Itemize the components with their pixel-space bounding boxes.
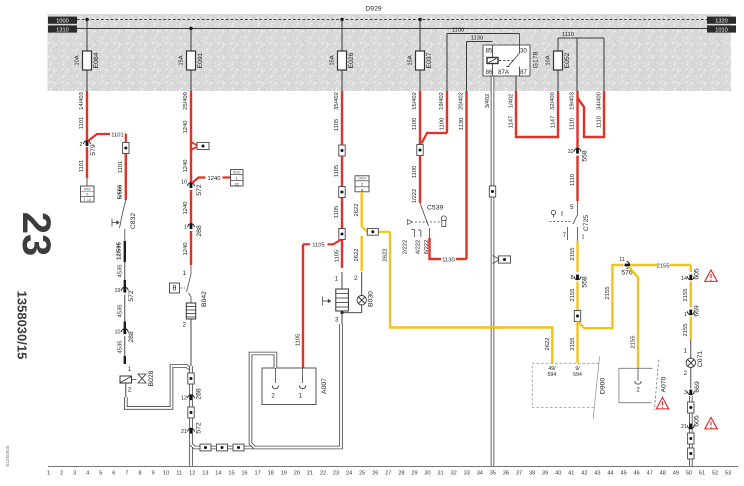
svg-text:22: 22 <box>234 181 239 186</box>
svg-text:3: 3 <box>684 390 687 396</box>
svg-text:6: 6 <box>112 471 115 477</box>
svg-text:32: 32 <box>451 471 457 477</box>
svg-text:43: 43 <box>594 471 600 477</box>
svg-text:579: 579 <box>90 144 97 156</box>
svg-text:1240: 1240 <box>183 121 189 134</box>
svg-text:10: 10 <box>163 471 169 477</box>
svg-text:594: 594 <box>548 372 557 378</box>
svg-text:C725: C725 <box>583 215 590 231</box>
svg-text:1101: 1101 <box>79 160 85 172</box>
svg-text:1: 1 <box>47 471 50 477</box>
svg-text:4535: 4535 <box>118 265 124 278</box>
svg-text:30: 30 <box>424 471 430 477</box>
svg-text:12: 12 <box>189 471 195 477</box>
svg-text:1147: 1147 <box>509 116 515 128</box>
svg-text:3/402: 3/402 <box>485 94 491 109</box>
svg-text:15/402: 15/402 <box>412 92 418 110</box>
svg-text:46: 46 <box>634 471 640 477</box>
svg-text:669: 669 <box>694 305 701 317</box>
svg-text:14: 14 <box>87 198 91 202</box>
svg-text:1130: 1130 <box>459 118 465 130</box>
svg-text:1105: 1105 <box>334 119 340 131</box>
svg-text:5: 5 <box>86 193 88 197</box>
svg-text:B042: B042 <box>201 291 208 307</box>
svg-text:1110: 1110 <box>562 32 574 38</box>
svg-text:24: 24 <box>346 471 352 477</box>
svg-text:2622: 2622 <box>354 204 360 217</box>
svg-text:1105: 1105 <box>296 334 302 346</box>
svg-text:49/: 49/ <box>548 366 556 372</box>
svg-text:1010: 1010 <box>715 27 727 33</box>
svg-text:B030: B030 <box>368 291 375 307</box>
svg-text:11: 11 <box>176 471 182 477</box>
svg-text:14: 14 <box>681 276 687 282</box>
svg-text:D929: D929 <box>365 6 381 13</box>
svg-text:36: 36 <box>503 471 509 477</box>
svg-text:1105: 1105 <box>334 165 340 177</box>
svg-text:2622: 2622 <box>383 249 389 262</box>
svg-text:19/402: 19/402 <box>439 92 445 110</box>
svg-text:B028: B028 <box>148 370 155 386</box>
svg-text:26: 26 <box>372 471 378 477</box>
svg-text:5: 5 <box>99 471 102 477</box>
svg-text:9: 9 <box>151 471 154 477</box>
svg-text:D900: D900 <box>600 378 607 394</box>
svg-text:2: 2 <box>60 471 63 477</box>
svg-text:18: 18 <box>268 471 274 477</box>
svg-text:1310: 1310 <box>56 27 68 33</box>
svg-text:G178: G178 <box>533 51 540 68</box>
svg-text:87: 87 <box>520 70 527 76</box>
svg-text:4535: 4535 <box>118 341 124 354</box>
svg-text:51: 51 <box>699 471 705 477</box>
svg-text:28: 28 <box>398 471 404 477</box>
svg-text:1/222: 1/222 <box>412 189 418 204</box>
svg-text:10: 10 <box>568 149 574 155</box>
svg-text:1101: 1101 <box>111 132 123 138</box>
svg-text:1101: 1101 <box>118 161 124 173</box>
svg-text:2/222: 2/222 <box>403 240 409 255</box>
svg-text:50: 50 <box>686 471 692 477</box>
svg-text:D930: D930 <box>233 170 241 174</box>
svg-text:49: 49 <box>673 471 679 477</box>
svg-text:14/403: 14/403 <box>79 92 85 110</box>
svg-text:605: 605 <box>694 268 701 280</box>
svg-text:38: 38 <box>529 471 535 477</box>
svg-text:1: 1 <box>582 235 585 241</box>
svg-text:C832: C832 <box>130 213 137 229</box>
svg-text:10: 10 <box>115 330 121 336</box>
svg-text:E084: E084 <box>93 52 100 68</box>
svg-text:E091: E091 <box>197 52 204 68</box>
svg-text:1: 1 <box>684 312 687 318</box>
svg-text:1110: 1110 <box>570 118 576 130</box>
svg-text:1240: 1240 <box>183 160 189 173</box>
svg-text:25: 25 <box>359 471 365 477</box>
svg-text:1000: 1000 <box>56 19 68 25</box>
svg-text:42: 42 <box>581 471 587 477</box>
svg-text:1105: 1105 <box>334 206 340 218</box>
svg-text:288: 288 <box>196 388 203 400</box>
svg-text:86: 86 <box>486 70 493 76</box>
svg-text:558: 558 <box>582 276 589 288</box>
svg-text:3: 3 <box>73 471 76 477</box>
svg-text:32/400: 32/400 <box>550 92 556 110</box>
svg-text:572: 572 <box>196 422 203 434</box>
svg-text:1105: 1105 <box>312 243 324 249</box>
svg-text:34/400: 34/400 <box>597 92 603 110</box>
svg-text:605: 605 <box>694 415 701 427</box>
svg-text:1240: 1240 <box>183 202 189 215</box>
svg-text:23: 23 <box>14 212 58 257</box>
svg-text:2155: 2155 <box>683 289 689 302</box>
svg-text:21: 21 <box>681 424 687 430</box>
svg-text:2155: 2155 <box>657 263 670 269</box>
svg-text:19: 19 <box>115 288 121 294</box>
svg-text:19/403: 19/403 <box>570 92 576 110</box>
svg-text:2622: 2622 <box>545 338 551 351</box>
svg-text:2155: 2155 <box>570 248 576 261</box>
svg-text:2155: 2155 <box>631 336 637 349</box>
svg-text:E037: E037 <box>426 52 433 68</box>
svg-text:M52: M52 <box>84 187 91 191</box>
svg-text:1110: 1110 <box>570 174 576 186</box>
svg-text:2: 2 <box>80 142 83 148</box>
svg-text:21: 21 <box>307 471 313 477</box>
svg-text:12/595: 12/595 <box>117 241 123 260</box>
svg-text:30: 30 <box>520 49 527 55</box>
svg-text:8: 8 <box>138 471 141 477</box>
svg-text:A007: A007 <box>321 378 328 394</box>
svg-text:θ: θ <box>173 286 177 293</box>
svg-text:288: 288 <box>128 331 135 343</box>
svg-text:1320: 1320 <box>715 19 727 25</box>
svg-text:15: 15 <box>228 471 234 477</box>
svg-text:2622: 2622 <box>354 249 360 262</box>
svg-text:1240: 1240 <box>183 243 189 256</box>
svg-text:D904: D904 <box>358 177 366 181</box>
svg-text:85: 85 <box>486 49 493 55</box>
svg-text:1100: 1100 <box>440 118 446 130</box>
svg-text:15A: 15A <box>179 55 185 65</box>
svg-text:669: 669 <box>694 381 701 393</box>
svg-text:44: 44 <box>607 471 613 477</box>
svg-text:558: 558 <box>582 150 589 162</box>
svg-text:1240: 1240 <box>208 176 221 182</box>
svg-text:14: 14 <box>215 471 221 477</box>
svg-text:1/402: 1/402 <box>509 94 515 109</box>
svg-text:10: 10 <box>181 180 187 186</box>
svg-text:1100: 1100 <box>452 28 464 34</box>
svg-text:572: 572 <box>196 184 203 196</box>
svg-text:13: 13 <box>202 471 208 477</box>
svg-text:4535: 4535 <box>118 305 124 318</box>
svg-text:4/222: 4/222 <box>416 240 422 255</box>
svg-text:9/: 9/ <box>575 366 580 372</box>
svg-text:1358030/15: 1358030/15 <box>15 291 30 360</box>
svg-text:1105: 1105 <box>335 250 341 262</box>
svg-text:34: 34 <box>477 471 483 477</box>
svg-text:48: 48 <box>660 471 666 477</box>
svg-text:1130: 1130 <box>442 257 454 263</box>
svg-text:35: 35 <box>490 471 496 477</box>
svg-text:8: 8 <box>571 275 574 281</box>
svg-text:2155: 2155 <box>570 338 576 351</box>
svg-text:20/402: 20/402 <box>459 92 465 110</box>
svg-text:594: 594 <box>573 372 582 378</box>
svg-text:C071: C071 <box>697 351 704 367</box>
svg-text:25/400: 25/400 <box>183 92 189 110</box>
svg-text:21: 21 <box>181 429 187 435</box>
svg-text:45: 45 <box>620 471 626 477</box>
svg-text:27: 27 <box>385 471 391 477</box>
svg-text:31: 31 <box>437 471 443 477</box>
svg-text:4: 4 <box>86 471 89 477</box>
svg-text:E052: E052 <box>564 52 571 68</box>
svg-text:C539: C539 <box>427 205 443 212</box>
svg-text:10A: 10A <box>546 55 552 65</box>
svg-text:15A: 15A <box>408 55 414 65</box>
svg-text:288: 288 <box>196 225 203 237</box>
svg-text:1147: 1147 <box>551 116 557 128</box>
svg-text:E026: E026 <box>348 52 355 68</box>
svg-text:37: 37 <box>516 471 522 477</box>
svg-text:1101: 1101 <box>79 117 85 129</box>
svg-text:1110: 1110 <box>597 116 603 128</box>
svg-text:52: 52 <box>712 471 718 477</box>
svg-text:12: 12 <box>181 396 187 402</box>
svg-text:10A: 10A <box>75 55 81 65</box>
svg-text:EL500920: EL500920 <box>5 445 10 466</box>
svg-text:17: 17 <box>255 471 261 477</box>
svg-text:23: 23 <box>333 471 339 477</box>
svg-text:20: 20 <box>294 471 300 477</box>
svg-text:22: 22 <box>320 471 326 477</box>
svg-text:19: 19 <box>281 471 287 477</box>
svg-text:39: 39 <box>542 471 548 477</box>
svg-text:11: 11 <box>619 257 624 263</box>
svg-text:2155: 2155 <box>605 287 611 300</box>
svg-text:7: 7 <box>125 471 128 477</box>
svg-text:16: 16 <box>241 471 247 477</box>
svg-text:1100: 1100 <box>412 118 418 130</box>
svg-text:87A: 87A <box>498 70 509 76</box>
svg-text:1: 1 <box>184 225 187 231</box>
svg-text:1130: 1130 <box>471 36 483 42</box>
svg-text:29: 29 <box>411 471 417 477</box>
svg-text:53: 53 <box>725 471 731 477</box>
svg-text:2155: 2155 <box>570 289 576 302</box>
svg-text:15A: 15A <box>330 55 336 65</box>
svg-text:33: 33 <box>464 471 470 477</box>
svg-text:47: 47 <box>647 471 653 477</box>
svg-text:40: 40 <box>555 471 561 477</box>
svg-text:A070: A070 <box>661 376 668 392</box>
svg-text:1100: 1100 <box>412 166 418 178</box>
svg-text:2155: 2155 <box>683 324 689 337</box>
svg-text:35/402: 35/402 <box>334 92 340 110</box>
svg-text:5/566: 5/566 <box>118 184 124 199</box>
svg-text:572: 572 <box>128 290 135 302</box>
svg-text:41: 41 <box>568 471 574 477</box>
